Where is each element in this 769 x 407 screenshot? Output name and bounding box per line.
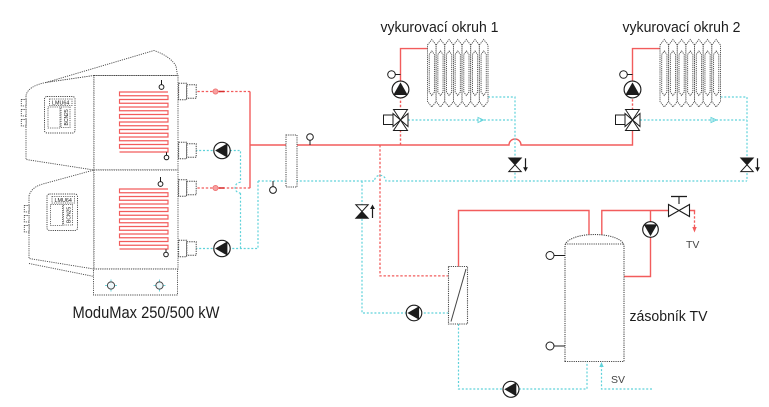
tank sensor lower	[554, 345, 565, 347]
svg-text:LMU64: LMU64	[52, 100, 69, 106]
boiler base pedestal	[94, 269, 178, 295]
arrow: SV flow arrowhead into tank	[599, 362, 603, 367]
wire: circuit 1 supply riser upper to radiator	[401, 49, 428, 83]
boiler unit 2 body box	[94, 170, 178, 269]
svg-text:LMU64: LMU64	[55, 198, 72, 204]
boiler base bolt left	[110, 280, 112, 292]
mixing valve circuit 1	[384, 115, 394, 125]
pump tank charging (bottom)	[503, 381, 519, 397]
svg-text:BCN25: BCN25	[67, 207, 73, 223]
svg-text:vykurovací okruh 2: vykurovací okruh 2	[623, 19, 741, 36]
svg-text:TV: TV	[686, 239, 699, 251]
svg-text:SV: SV	[611, 374, 625, 386]
pump HX primary	[406, 305, 422, 321]
pump DHW circulation	[643, 222, 659, 238]
pump circuit 1	[392, 81, 409, 98]
check valve boiler 1 supply	[213, 89, 218, 94]
arrow: tiny flow mark circuit1 bypass	[478, 118, 484, 123]
wire: circuit 2 mixing valve bypass	[640, 119, 747, 121]
svg-text:zásobník TV: zásobník TV	[630, 308, 708, 325]
plate heat exchanger	[449, 267, 468, 325]
wire: tank top to TV valve	[602, 211, 668, 237]
sensor on return header	[272, 181, 274, 187]
wire: circulation drop through pump into tank	[624, 211, 651, 277]
wire: circuit 1 supply riser lower	[400, 96, 402, 145]
boiler 1 return flange	[179, 142, 187, 158]
tank sensor upper	[554, 255, 565, 257]
wire: circuit 2 supply riser upper to radiator	[633, 49, 661, 83]
boiler 2 air vent	[160, 177, 162, 182]
svg-text:ModuMax 250/500 kW: ModuMax 250/500 kW	[73, 303, 220, 322]
wire: TV valve outlet + drop	[690, 211, 695, 213]
boiler 1 drain	[166, 152, 168, 155]
radiator circuit 1	[428, 40, 489, 108]
wire: circuit 2 radiator return down to header end	[721, 97, 748, 181]
boiler 1 supply flange	[179, 83, 187, 99]
boiler 2 supply flange	[179, 180, 187, 196]
radiator circuit 2	[660, 40, 721, 108]
wire: boiler1 return into boiler	[127, 150, 214, 152]
boiler unit 2 bottom skirt line	[29, 264, 94, 277]
sensor circuit 1	[395, 74, 400, 76]
boiler 1 heat-exchanger coil	[120, 92, 169, 152]
wire: HX secondary cold from tank bottom	[459, 324, 588, 389]
arrow: tiny flow mark circuit2 bypass	[711, 118, 717, 123]
boiler base bolt right	[159, 280, 161, 292]
boiler unit 2 (lower) front panel	[29, 170, 94, 269]
hydraulic separator	[286, 135, 297, 187]
boiler 2 control panel LMU64	[47, 194, 78, 231]
mixing valve circuit 2	[616, 115, 626, 125]
TV outlet valve with T handle	[678, 197, 680, 204]
arrow: TV outlet arrowhead	[692, 227, 696, 233]
svg-text:BCN25: BCN25	[64, 109, 70, 125]
wire: circuit 1 radiator return down to header	[488, 97, 515, 181]
boiler unit 1 hinges	[21, 100, 26, 106]
DHW tank (zasobnik TV)	[565, 235, 624, 362]
boiler unit 2 hinges	[24, 206, 29, 212]
check valve boiler 2 supply	[213, 185, 218, 190]
wire: circuit 1 mixing valve bypass	[408, 119, 515, 121]
wire: boiler1 return branch with hop over boiler2 supply	[230, 151, 241, 183]
wire: boiler supply riser	[249, 92, 251, 189]
balancing valve circuit 1 return	[509, 158, 521, 165]
wire: HX secondary hot to tank top	[459, 211, 590, 267]
sensor circuit 2	[627, 74, 632, 76]
wire: circuit 2 supply riser lower	[632, 96, 634, 110]
pump circuit 2	[624, 81, 641, 98]
wire: return header left drop to boiler pumps	[230, 181, 258, 249]
wire: boiler2 return into boiler	[127, 248, 214, 250]
boiler 1 air vent	[161, 80, 163, 85]
boiler 1 control panel LMU64	[45, 97, 76, 134]
wire: HX primary return riser w/ balancing valve	[362, 181, 449, 313]
boiler 2 drain	[165, 249, 167, 252]
pump boiler 2	[214, 240, 230, 256]
svg-text:vykurovací okruh 1: vykurovací okruh 1	[381, 19, 499, 36]
boiler unit 1 body box	[94, 76, 178, 171]
boiler 2 return flange	[179, 240, 187, 256]
wire: main return header (cyan) with hop over DHW drop	[258, 175, 747, 181]
balancing valve circuit 2 return	[741, 158, 753, 165]
balancing valve HX primary return	[356, 205, 368, 212]
wire: DHW primary drop from header	[380, 145, 449, 276]
boiler 2 heat-exchanger coil	[120, 189, 169, 249]
wire: boiler 2 supply (red dashed)	[168, 187, 251, 189]
boiler unit 1 (upper) roof	[46, 51, 178, 83]
sensor on supply header	[309, 140, 311, 145]
wire: cold water SV inlet	[602, 364, 653, 389]
pump boiler 1	[214, 142, 230, 158]
boiler unit 1 front panel	[26, 76, 94, 171]
wire: main supply header with hop over circuit1 return	[250, 131, 633, 146]
wire: boiler 1 supply (red dashed)	[168, 91, 250, 93]
